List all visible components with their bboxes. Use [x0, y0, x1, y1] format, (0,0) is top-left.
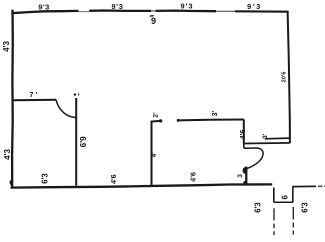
svg-text:3': 3': [262, 133, 269, 139]
svg-text:9: 9: [151, 16, 156, 26]
node door jamb dot left room: [74, 93, 76, 95]
svg-text:6'3: 6'3: [254, 202, 263, 213]
node center wall cap end blob: [159, 119, 162, 122]
wire bottom wall: [11, 184, 273, 187]
node right structure wall left end tick: [177, 119, 180, 122]
wire top wall thin window segment: [216, 10, 235, 12]
wire stair tread connector: [274, 201, 293, 203]
wire stair right dashed line: [292, 207, 294, 235]
node lower door jamb bottom junction blob: [243, 181, 247, 185]
wire lower ledge wall to right wall: [244, 142, 290, 145]
wire interior center wall vertical with cap: [152, 121, 161, 187]
wire stair opening left side solid: [273, 188, 275, 203]
node apostrophe tick at left room door jamb: [78, 93, 79, 95]
wire interior right structure horizontal wall: [178, 119, 244, 122]
svg-text:4'6: 4'6: [189, 172, 198, 182]
wire interior wall left room horizontal: [13, 99, 57, 102]
svg-text:3: 3: [237, 174, 244, 178]
wire door swing arc left room: [56, 100, 76, 118]
wire door hinge stub: [243, 144, 245, 149]
wire bottom wall dashed continuation: [318, 185, 325, 187]
svg-text:4'3: 4'3: [3, 149, 12, 160]
wire top wall right segment: [235, 10, 289, 12]
svg-text:9'3: 9'3: [111, 2, 123, 11]
svg-text:6'3: 6'3: [41, 173, 50, 184]
wire stair opening right side solid: [292, 188, 294, 203]
svg-text:3': 3': [212, 110, 219, 116]
svg-text:9'3: 9'3: [38, 3, 49, 12]
svg-text:6'3: 6'3: [301, 202, 310, 213]
node bottom left corner junction blob: [10, 180, 14, 185]
svg-text:9'3: 9'3: [247, 2, 262, 11]
wire stair left dashed line: [273, 208, 275, 235]
svg-text:9'3: 9'3: [181, 1, 194, 10]
svg-text:4': 4': [151, 152, 158, 158]
wire top wall left segment: [11, 11, 78, 13]
svg-text:4'3: 4'3: [2, 41, 11, 52]
svg-text:6: 6: [281, 195, 290, 200]
door marker flag dash: [150, 15, 154, 18]
wire bottom wall right extension: [292, 185, 316, 187]
wire top wall segment right of marker: [156, 9, 216, 12]
svg-text:6'9: 6'9: [79, 136, 88, 148]
wire door leaf and swing single stroke: [244, 148, 263, 169]
wire lower door jamb wall: [245, 167, 247, 186]
node lower door jamb blob: [243, 167, 248, 173]
wire top wall thin segment at door marker: [151, 10, 156, 12]
wire top wall thin window segment left: [79, 11, 90, 13]
svg-text:4'6: 4'6: [109, 174, 118, 184]
svg-text:20'6: 20'6: [282, 71, 288, 83]
wire upper ledge line at right wall bottom: [265, 137, 290, 140]
svg-text:2': 2': [152, 112, 159, 118]
wire interior wall left room vertical: [75, 98, 77, 186]
wire left wall: [11, 10, 14, 188]
svg-text:4'6: 4'6: [238, 130, 247, 140]
wire interior right structure vertical wall: [243, 120, 245, 144]
wire right wall: [288, 11, 290, 143]
svg-text:7': 7': [29, 90, 39, 99]
wire top wall middle segment: [89, 9, 151, 12]
